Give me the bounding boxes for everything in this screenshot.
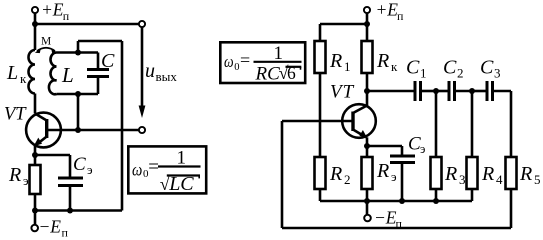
wire R5 to feedback loop bbox=[510, 189, 513, 228]
svg-text:вых: вых bbox=[156, 69, 178, 84]
output terminal top bbox=[139, 21, 145, 27]
label C2 bbox=[443, 57, 464, 81]
wire node to C3 bbox=[472, 90, 487, 93]
+Ep terminal (left) bbox=[32, 7, 38, 24]
node base/tank junction bbox=[75, 127, 81, 133]
svg-text:5: 5 bbox=[534, 172, 541, 187]
node rail Ce (left) bbox=[67, 208, 73, 214]
capacitor C bbox=[87, 53, 109, 95]
node rail Re (right) bbox=[364, 198, 370, 204]
node R3 top bbox=[433, 88, 439, 94]
resistor Rk bbox=[362, 41, 373, 73]
svg-text:C: C bbox=[73, 154, 86, 175]
wire bottom rail (right) bbox=[320, 200, 472, 203]
-Ep terminal (left) bbox=[31, 211, 38, 232]
node emitter (right) bbox=[364, 143, 370, 149]
wire Lk to collector bbox=[34, 94, 37, 114]
wire Rk from +Ep bbox=[366, 24, 369, 41]
capacitor C3 bbox=[487, 81, 493, 101]
svg-text:u: u bbox=[145, 60, 155, 82]
svg-text:п: п bbox=[396, 217, 403, 231]
wire Rk to collector node bbox=[366, 73, 369, 91]
wire tank bottom to base node bbox=[77, 94, 80, 130]
wire collector to C1 bbox=[367, 90, 415, 93]
svg-text:M: M bbox=[41, 36, 51, 48]
tank bottom wire bbox=[57, 93, 99, 96]
svg-text:ω: ω bbox=[224, 52, 234, 71]
wire tank top link bbox=[78, 41, 122, 211]
svg-text:RC: RC bbox=[255, 64, 281, 85]
wire emitter to Re (left) bbox=[34, 155, 37, 165]
svg-text:C: C bbox=[443, 57, 457, 79]
output terminal bottom bbox=[139, 127, 145, 133]
+Ep terminal (right) bbox=[364, 7, 370, 24]
node R4 top bbox=[469, 88, 475, 94]
resistor Re (left) bbox=[30, 165, 41, 194]
svg-text:R: R bbox=[444, 163, 457, 185]
svg-text:3: 3 bbox=[459, 172, 466, 187]
wire +Ep to R1 bbox=[320, 24, 367, 41]
svg-text:2: 2 bbox=[344, 172, 351, 187]
node collector bbox=[364, 88, 370, 94]
wire emitter to Re (right) bbox=[366, 146, 369, 157]
resistor R4 bbox=[467, 157, 478, 189]
resistor R2 bbox=[315, 157, 326, 189]
svg-text:4: 4 bbox=[496, 172, 503, 187]
svg-text:C: C bbox=[480, 57, 494, 79]
svg-text:э: э bbox=[420, 142, 425, 156]
capacitor Ce (left) bbox=[58, 155, 83, 211]
svg-text:L: L bbox=[6, 62, 18, 84]
wire R2 to rail bbox=[319, 189, 322, 201]
svg-text:R: R bbox=[329, 163, 342, 185]
wire R1 to R2 bbox=[319, 73, 322, 157]
inductor Lk bbox=[29, 50, 36, 94]
svg-text:+E: +E bbox=[376, 0, 399, 20]
wire +Ep to Lk bbox=[34, 24, 37, 50]
wire C3 to R5 bbox=[493, 91, 512, 157]
svg-text:к: к bbox=[391, 59, 398, 74]
node tank bottom bbox=[75, 91, 81, 97]
label u_vyh bbox=[145, 60, 177, 84]
capacitor C1 bbox=[415, 81, 421, 101]
svg-text:R: R bbox=[376, 160, 389, 182]
svg-text:+E: +E bbox=[41, 0, 64, 20]
wire emitter bbox=[34, 145, 37, 155]
wire C2 to node R4 bbox=[455, 90, 473, 93]
resistor R1 bbox=[315, 41, 326, 73]
svg-text:R: R bbox=[519, 163, 532, 185]
label +Ep (left) bbox=[41, 0, 70, 23]
label Ce (right) bbox=[408, 134, 425, 157]
transistor VT (right) bbox=[342, 104, 376, 138]
node emitter (left) bbox=[32, 152, 38, 158]
svg-text:=: = bbox=[148, 157, 159, 178]
wire collector (right) bbox=[366, 91, 369, 106]
label Lk bbox=[6, 62, 27, 86]
svg-text:э: э bbox=[391, 169, 397, 184]
tank top wire bbox=[57, 51, 99, 54]
inductor L bbox=[49, 53, 57, 95]
label Ce (left) bbox=[73, 154, 93, 177]
svg-text:C: C bbox=[101, 50, 115, 72]
-Ep terminal (right) bbox=[364, 201, 371, 221]
svg-text:ω: ω bbox=[132, 160, 142, 180]
wire top rail (left) bbox=[35, 23, 139, 26]
label Re (left) bbox=[8, 164, 29, 188]
label C3 bbox=[480, 57, 501, 81]
resistor Re (right) bbox=[362, 157, 373, 189]
wire feedback loop bbox=[282, 121, 511, 228]
label +Ep (right) bbox=[376, 0, 405, 23]
svg-text:п: п bbox=[397, 9, 404, 23]
svg-text:−E: −E bbox=[374, 208, 397, 228]
node tank top bbox=[75, 50, 81, 56]
svg-text:=: = bbox=[240, 50, 250, 70]
svg-text:−E: −E bbox=[39, 217, 62, 237]
capacitor C2 bbox=[449, 81, 455, 101]
svg-text:VT: VT bbox=[330, 82, 355, 103]
node +Ep (left) bbox=[32, 21, 38, 27]
wire Re to rail (right) bbox=[366, 189, 369, 201]
svg-text:R: R bbox=[481, 163, 494, 185]
svg-text:п: п bbox=[63, 9, 70, 23]
formula box left bbox=[128, 146, 206, 195]
svg-text:э: э bbox=[23, 173, 29, 188]
label R2 bbox=[329, 163, 351, 187]
svg-text:1: 1 bbox=[274, 43, 284, 64]
wire C1 to node R3 bbox=[421, 90, 437, 93]
label -Ep (right) bbox=[374, 208, 403, 231]
svg-text:R: R bbox=[329, 50, 342, 72]
svg-text:C: C bbox=[406, 57, 420, 79]
mutual coupling arrows bbox=[35, 48, 57, 53]
wire bottom rail (left) bbox=[35, 209, 122, 212]
label R3 bbox=[444, 163, 466, 187]
transistor VT (left) bbox=[26, 113, 61, 148]
capacitor Ce (right) bbox=[390, 146, 415, 201]
svg-text:1: 1 bbox=[420, 66, 427, 81]
svg-text:L: L bbox=[61, 63, 74, 87]
node rail R3 bbox=[433, 198, 439, 204]
formula box right bbox=[220, 42, 305, 84]
svg-text:1: 1 bbox=[344, 59, 351, 74]
wire Re to rail (left) bbox=[34, 194, 37, 211]
svg-text:R: R bbox=[8, 164, 21, 186]
svg-text:3: 3 bbox=[494, 66, 501, 81]
wire R4 drop bbox=[471, 91, 474, 157]
wire emitter (right) bbox=[366, 137, 369, 146]
label R1 bbox=[329, 50, 351, 74]
node rail Re (left) bbox=[32, 208, 38, 214]
svg-text:1: 1 bbox=[177, 147, 187, 168]
svg-text:R: R bbox=[376, 50, 389, 72]
wire R4 to rail bbox=[471, 189, 474, 201]
svg-text:2: 2 bbox=[457, 66, 464, 81]
wire node to C2 bbox=[436, 90, 449, 93]
svg-text:VT: VT bbox=[4, 105, 27, 125]
label R5 bbox=[519, 163, 541, 187]
svg-text:э: э bbox=[87, 162, 93, 177]
label Re (right) bbox=[376, 160, 397, 184]
wire emitter to Ce (right) bbox=[367, 145, 402, 148]
wire R3 drop bbox=[435, 91, 438, 157]
node rail Ce (right) bbox=[399, 198, 405, 204]
label -Ep (left) bbox=[39, 217, 69, 240]
label C1 bbox=[406, 57, 427, 81]
arrow u_vyh bbox=[139, 28, 146, 119]
wire R3 to rail bbox=[435, 189, 438, 201]
node +Ep (right) bbox=[364, 21, 370, 27]
resistor R3 bbox=[431, 157, 442, 189]
svg-text:п: п bbox=[62, 226, 69, 240]
label R4 bbox=[481, 163, 503, 187]
wire base to output bbox=[47, 129, 139, 132]
wire base (right) bbox=[282, 120, 353, 123]
label Rk bbox=[376, 50, 398, 74]
svg-text:0: 0 bbox=[234, 62, 239, 73]
resistor R5 bbox=[506, 157, 517, 189]
wire emitter to Ce (left) bbox=[35, 154, 70, 157]
svg-text:к: к bbox=[20, 71, 27, 86]
